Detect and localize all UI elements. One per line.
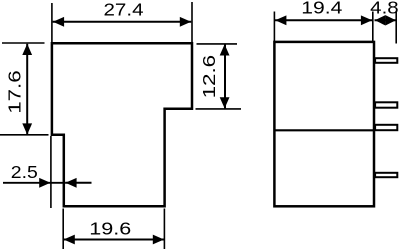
svg-text:27.4: 27.4 [104, 0, 144, 20]
svg-text:2.5: 2.5 [11, 162, 38, 182]
dimension 4.8 [370, 0, 399, 43]
right view body outline [274, 42, 374, 206]
dimension 17.6 [0, 43, 49, 135]
pin 1 [375, 58, 397, 63]
svg-text:17.6: 17.6 [5, 70, 25, 114]
dimension 12.6 [196, 44, 242, 109]
dimension 27.4 [52, 0, 192, 42]
dimension 19.4 [274, 0, 372, 42]
svg-text:19.6: 19.6 [89, 218, 131, 238]
left view body outline [52, 43, 192, 206]
pin 4 [375, 173, 397, 177]
svg-text:12.6: 12.6 [199, 55, 219, 99]
svg-text:4.8: 4.8 [370, 0, 399, 18]
dimension 2.5 [3, 136, 92, 208]
pin 2 [375, 102, 397, 107]
svg-text:19.4: 19.4 [301, 0, 342, 18]
right view divider line [274, 129, 374, 131]
pin 3 [375, 125, 397, 130]
dimension 19.6 [63, 209, 164, 249]
